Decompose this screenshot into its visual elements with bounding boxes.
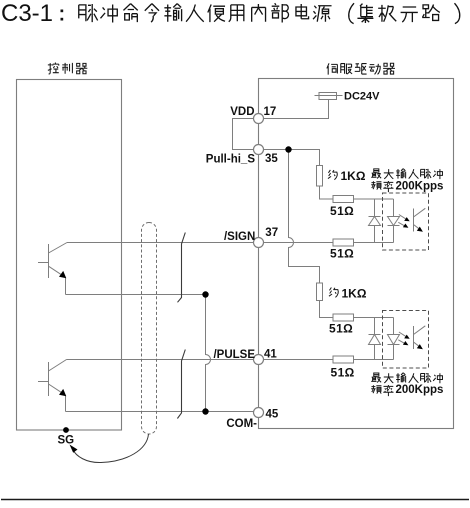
svg-text:51Ω: 51Ω bbox=[331, 366, 355, 380]
svg-text:/SIGN: /SIGN bbox=[224, 231, 255, 243]
svg-text:VDD: VDD bbox=[230, 106, 254, 118]
svg-text:45: 45 bbox=[266, 408, 279, 420]
svg-text:COM-: COM- bbox=[226, 418, 257, 430]
svg-text:/PULSE: /PULSE bbox=[213, 349, 255, 361]
svg-text:DC24V: DC24V bbox=[344, 91, 380, 103]
svg-text:35: 35 bbox=[265, 153, 278, 165]
svg-text:51Ω: 51Ω bbox=[330, 247, 354, 261]
svg-text:200Kpps: 200Kpps bbox=[396, 180, 444, 192]
svg-text:SG: SG bbox=[58, 435, 75, 447]
svg-text:1KΩ: 1KΩ bbox=[341, 169, 366, 183]
svg-text:200Kpps: 200Kpps bbox=[396, 384, 444, 396]
svg-text:51Ω: 51Ω bbox=[330, 204, 354, 218]
svg-text:1KΩ: 1KΩ bbox=[342, 286, 367, 300]
svg-text:37: 37 bbox=[265, 227, 278, 239]
svg-text:Pull-hi_S: Pull-hi_S bbox=[206, 154, 256, 166]
svg-text:17: 17 bbox=[264, 106, 277, 118]
svg-text:51Ω: 51Ω bbox=[329, 322, 353, 336]
svg-text:C3-1: C3-1 bbox=[1, 0, 53, 27]
svg-text:41: 41 bbox=[264, 349, 277, 361]
